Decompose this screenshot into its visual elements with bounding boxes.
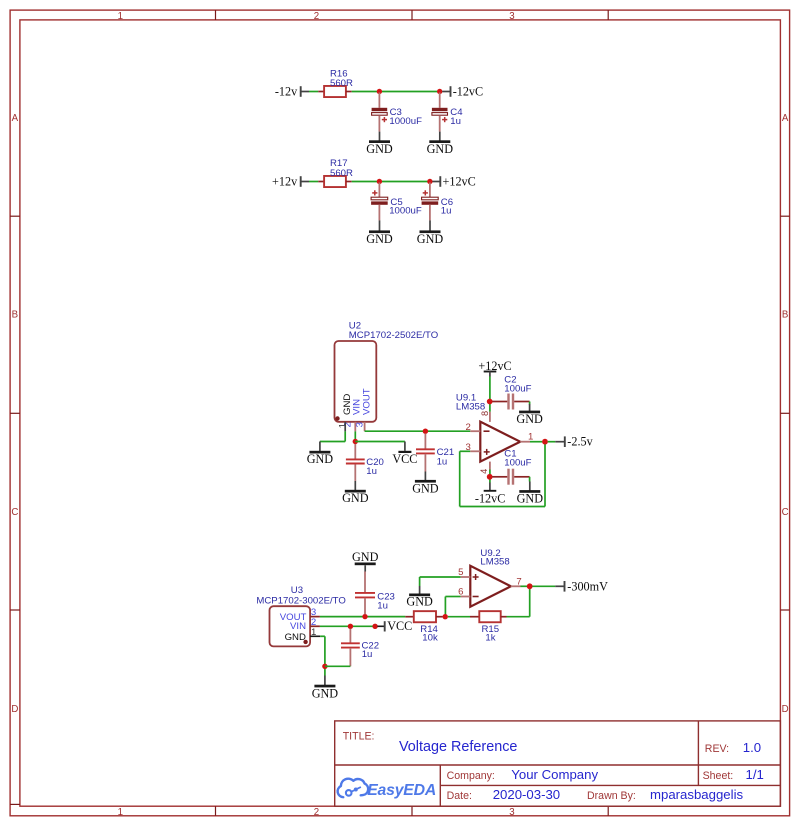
svg-text:B: B	[782, 309, 788, 320]
svg-text:TITLE:: TITLE:	[343, 731, 375, 743]
svg-text:1: 1	[118, 11, 123, 22]
svg-text:GND: GND	[307, 452, 334, 466]
svg-text:VCC: VCC	[387, 619, 412, 633]
svg-text:560R: 560R	[330, 168, 353, 179]
svg-text:1.0: 1.0	[743, 740, 761, 755]
svg-text:8: 8	[480, 411, 490, 416]
svg-text:7: 7	[516, 577, 521, 588]
svg-text:-2.5v: -2.5v	[567, 434, 593, 448]
svg-text:1u: 1u	[450, 116, 461, 127]
svg-text:GND: GND	[412, 481, 439, 495]
svg-text:5: 5	[458, 567, 463, 578]
svg-text:LM358: LM358	[480, 556, 509, 567]
svg-text:Sheet:: Sheet:	[703, 770, 734, 782]
svg-text:3: 3	[509, 11, 514, 22]
svg-text:1: 1	[118, 807, 123, 818]
svg-text:GND: GND	[406, 595, 433, 609]
svg-text:GND: GND	[366, 232, 393, 246]
svg-text:MCP1702-2502E/TO: MCP1702-2502E/TO	[349, 330, 438, 341]
svg-text:EasyEDA: EasyEDA	[367, 782, 436, 799]
svg-text:1: 1	[528, 432, 533, 443]
svg-text:-12vC: -12vC	[475, 492, 505, 506]
svg-text:Date:: Date:	[447, 790, 472, 802]
svg-text:U3: U3	[291, 585, 303, 596]
svg-text:+12vC: +12vC	[443, 174, 476, 188]
svg-text:560R: 560R	[330, 78, 353, 89]
svg-text:VOUT: VOUT	[362, 388, 373, 415]
svg-text:100uF: 100uF	[504, 458, 531, 469]
svg-text:1u: 1u	[377, 600, 388, 611]
svg-text:4: 4	[479, 469, 489, 474]
svg-text:VIN: VIN	[290, 621, 306, 632]
svg-text:A: A	[782, 113, 789, 124]
svg-text:GND: GND	[285, 632, 306, 643]
svg-text:1u: 1u	[366, 466, 377, 477]
svg-text:1u: 1u	[441, 206, 452, 217]
svg-text:C: C	[11, 507, 18, 518]
svg-text:1u: 1u	[437, 457, 448, 468]
svg-text:-12vC: -12vC	[453, 84, 483, 98]
svg-text:3: 3	[509, 807, 514, 818]
svg-text:GND: GND	[516, 412, 543, 426]
svg-text:6: 6	[458, 587, 463, 598]
svg-text:mparasbaggelis: mparasbaggelis	[650, 787, 744, 802]
svg-text:-300mV: -300mV	[567, 580, 608, 594]
svg-text:A: A	[12, 113, 19, 124]
svg-text:1000uF: 1000uF	[389, 206, 422, 217]
svg-text:2: 2	[465, 422, 470, 433]
svg-text:D: D	[782, 704, 789, 715]
svg-text:3: 3	[465, 442, 470, 453]
svg-text:GND: GND	[352, 550, 379, 564]
svg-text:10k: 10k	[422, 633, 438, 644]
svg-text:+12v: +12v	[272, 174, 298, 188]
svg-text:GND: GND	[417, 232, 444, 246]
svg-text:B: B	[12, 309, 18, 320]
svg-text:C: C	[782, 507, 789, 518]
svg-text:D: D	[11, 704, 18, 715]
svg-text:1000uF: 1000uF	[389, 116, 422, 127]
svg-text:GND: GND	[366, 142, 393, 156]
svg-text:GND: GND	[312, 687, 339, 701]
svg-text:-12v: -12v	[275, 84, 298, 98]
svg-text:1k: 1k	[485, 633, 495, 644]
svg-text:2020-03-30: 2020-03-30	[493, 787, 560, 802]
svg-text:GND: GND	[517, 491, 544, 505]
svg-text:100uF: 100uF	[504, 383, 531, 394]
svg-text:2: 2	[314, 807, 319, 818]
svg-text:REV:: REV:	[705, 743, 729, 755]
svg-text:VCC: VCC	[392, 452, 417, 466]
svg-text:GND: GND	[427, 142, 454, 156]
svg-text:LM358: LM358	[456, 401, 485, 412]
svg-text:Company:: Company:	[447, 770, 495, 782]
svg-text:Your Company: Your Company	[511, 767, 598, 782]
svg-text:Voltage Reference: Voltage Reference	[399, 739, 517, 755]
svg-text:1u: 1u	[362, 649, 373, 660]
svg-text:1/1: 1/1	[746, 767, 764, 782]
svg-text:MCP1702-3002E/TO: MCP1702-3002E/TO	[256, 596, 345, 607]
svg-text:Drawn By:: Drawn By:	[587, 790, 636, 802]
svg-text:2: 2	[314, 11, 319, 22]
svg-text:GND: GND	[342, 491, 369, 505]
svg-text:2: 2	[343, 422, 354, 427]
